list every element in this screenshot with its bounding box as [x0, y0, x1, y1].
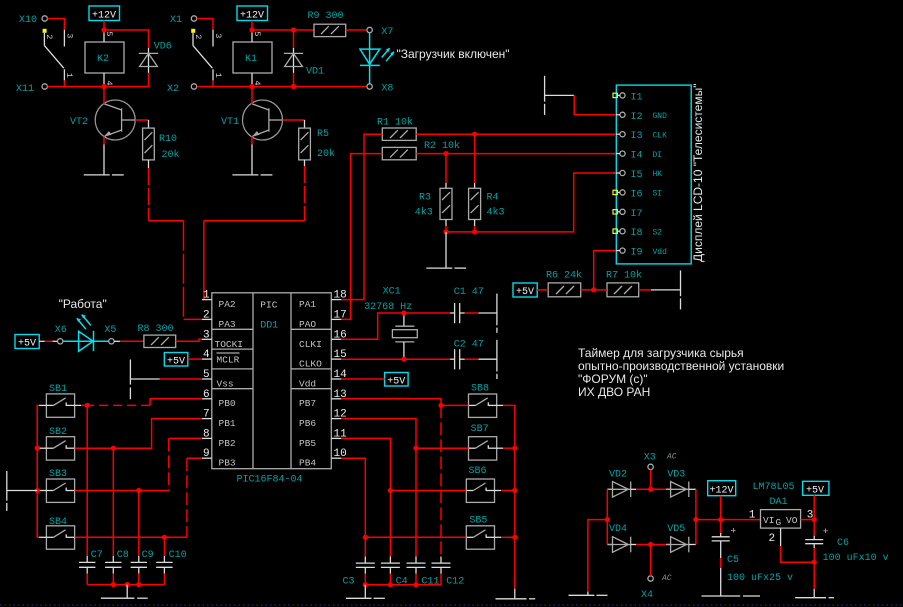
node X10 [19, 15, 47, 26]
crystal XC1 32768 Hz [364, 287, 417, 360]
wire pin16 CLKI to crystal/C1 [341, 313, 450, 339]
ground (C7-C10 rail) [101, 585, 148, 599]
svg-text:AC: AC [661, 574, 672, 583]
ground (C3-C12 rail) [346, 585, 385, 599]
svg-text:3: 3 [203, 329, 210, 341]
svg-text:Vdd: Vdd [299, 378, 316, 389]
svg-text:4k3: 4k3 [487, 207, 505, 219]
node X2 [167, 84, 197, 95]
button SB3 [46, 469, 74, 502]
svg-text:X3: X3 [644, 453, 656, 464]
svg-text:DD1: DD1 [260, 320, 278, 331]
junction R6/R7 [591, 287, 596, 292]
svg-text:3: 3 [64, 33, 74, 38]
svg-text:2: 2 [193, 34, 203, 39]
pin 12 PB6 [299, 409, 347, 429]
ground (Vss pin5) [130, 360, 159, 400]
switch SA1 (X1/X2) [191, 29, 223, 81]
diode VD5 [666, 524, 696, 552]
wire X1 to switch pin 3 [197, 19, 213, 30]
pin 7 PB1 [202, 409, 236, 429]
resistor R2 10k [382, 140, 460, 160]
svg-text:SB7: SB7 [471, 424, 489, 435]
svg-text:CLKO: CLKO [299, 359, 322, 370]
wire VD6 to K2 pin4 rail [104, 73, 149, 87]
svg-text:4: 4 [203, 349, 210, 361]
svg-text:+12V: +12V [710, 486, 734, 497]
junction R3 bottom [443, 229, 448, 234]
svg-text:100 uFx10 v: 100 uFx10 v [823, 553, 889, 564]
capacitor C8 [105, 550, 129, 574]
node X6 [55, 325, 67, 344]
wire bridge bottom rail [636, 544, 666, 546]
wire ground to I2 [574, 95, 616, 114]
pin I6 SI [613, 189, 662, 200]
power +5V (R6) [513, 283, 537, 298]
wire pin15 CLKO to crystal/C2 [341, 358, 450, 360]
svg-text:20k: 20k [317, 148, 335, 160]
svg-text:R4: R4 [487, 193, 499, 204]
junction K2 pin5 [101, 27, 106, 32]
wire C12 column [440, 405, 442, 556]
pin I2 GND [613, 112, 667, 123]
svg-text:Vdd: Vdd [653, 248, 668, 257]
svg-text:SB5: SB5 [469, 516, 487, 527]
svg-text:C1 47: C1 47 [454, 287, 484, 298]
junction VD1 bottom [291, 84, 296, 89]
svg-text:PA3: PA3 [219, 319, 236, 330]
wire C5 to ground [720, 558, 722, 568]
svg-text:VT2: VT2 [70, 117, 88, 128]
button SB5 [466, 516, 494, 550]
pin I7 [613, 209, 643, 220]
ground (C2) [479, 340, 497, 379]
svg-text:PB6: PB6 [299, 418, 316, 429]
pin 16 CLKI [299, 329, 347, 350]
svg-text:+5V: +5V [387, 377, 405, 388]
wire C2 to ground [465, 358, 479, 360]
svg-text:GND: GND [653, 112, 668, 121]
svg-text:20k: 20k [162, 149, 180, 161]
svg-text:PIC16F84-04: PIC16F84-04 [237, 475, 303, 486]
resistor R8 300 [138, 324, 176, 348]
resistor R3 4k3 [415, 154, 452, 226]
wire bridge left node [606, 489, 608, 544]
svg-text:C10: C10 [169, 550, 187, 561]
svg-text:R10: R10 [159, 134, 177, 145]
page boundary dotted line [0, 604, 903, 606]
resistor R10 20k [143, 120, 180, 168]
svg-text:Дисплей LCD-10 "Телесистемы": Дисплей LCD-10 "Телесистемы" [691, 84, 705, 262]
wire R3/R4 bottoms to I5 [445, 226, 447, 232]
button SB7 [469, 424, 497, 460]
wire R1 to PIC pin18 [341, 134, 382, 299]
wire R2 to display I4 [416, 153, 616, 155]
pin 6 PB0 [202, 389, 236, 409]
svg-text:+12V: +12V [240, 11, 264, 22]
svg-text:VO: VO [786, 515, 798, 526]
svg-text:VD4: VD4 [609, 524, 627, 535]
node X4 [641, 574, 672, 601]
junction C6 ground column [812, 560, 817, 565]
wire C7-C10 bottom rail [86, 574, 88, 585]
wire DA1 pin3 to +5V column [801, 519, 815, 521]
svg-text:8: 8 [203, 428, 210, 440]
wire R5 to PIC pin1 (PA2) [304, 166, 306, 221]
svg-text:4k3: 4k3 [415, 207, 433, 219]
junction K1 pin5 [249, 27, 254, 32]
junction bus SB7 [512, 446, 517, 451]
junction C5 column [718, 517, 723, 522]
junction crystal bottom [401, 357, 406, 362]
wire pin14 to +5V [341, 378, 384, 380]
junction +5V column [812, 517, 817, 522]
capacitor C12 [432, 557, 465, 588]
pin 2 PA3 [202, 309, 236, 330]
svg-text:PB4: PB4 [299, 458, 316, 469]
svg-text:9: 9 [203, 448, 210, 460]
junction R4 bottom [472, 229, 477, 234]
junction rail C11 [413, 582, 418, 587]
svg-text:+: + [731, 526, 737, 537]
svg-text:VT1: VT1 [221, 117, 239, 128]
svg-text:C12: C12 [446, 577, 464, 588]
svg-text:+5V: +5V [167, 357, 185, 368]
wire pin12 PB6 to SB7/C11 [341, 419, 468, 449]
svg-text:I1: I1 [631, 92, 643, 103]
button SB4 [46, 517, 74, 549]
svg-text:PB3: PB3 [219, 458, 236, 469]
svg-text:I2: I2 [631, 112, 643, 123]
svg-text:X6: X6 [55, 325, 67, 336]
resistor R4 4k3 [469, 134, 505, 226]
svg-text:K2: K2 [97, 54, 109, 65]
button SB1 [46, 384, 74, 417]
pin I4 DI [613, 151, 662, 162]
wire R8 to pin3 [176, 339, 202, 341]
junction bridge right [693, 517, 698, 522]
svg-text:SB8: SB8 [471, 384, 489, 395]
pin 18 PA1 [299, 290, 347, 311]
svg-text:G: G [776, 517, 782, 528]
svg-text:PA1: PA1 [299, 299, 316, 310]
ground (SB bus) [7, 471, 37, 511]
power +5V (supply) [803, 481, 829, 496]
svg-text:VD5: VD5 [667, 524, 685, 535]
junction bus SB2 [35, 446, 40, 451]
wire C8 column [112, 448, 114, 556]
svg-text:+5V: +5V [18, 339, 36, 350]
svg-text:PB5: PB5 [299, 438, 316, 449]
capacitor C3 [343, 557, 375, 588]
pin 14 Vdd [299, 369, 347, 389]
ground (C6) [795, 589, 834, 598]
capacitor C1 47 [450, 287, 484, 323]
junction bus SB6 [512, 488, 517, 493]
svg-text:I6: I6 [631, 189, 643, 200]
svg-text:Таймер для загрузчика сырья: Таймер для загрузчика сырья [578, 346, 744, 360]
svg-text:I3: I3 [631, 131, 643, 142]
junction R2/R3 [443, 151, 448, 156]
wire C4 column [389, 491, 391, 557]
svg-text:C2 47: C2 47 [454, 339, 484, 350]
button SB6 [466, 466, 494, 502]
wire pin8 PB2 to SB3/C9 [169, 437, 202, 439]
wire bridge left to ground [588, 520, 607, 592]
wire R2 to PIC pin17 [341, 154, 382, 320]
svg-text:HK: HK [653, 170, 663, 179]
power +12V (K1) [237, 6, 268, 22]
pin 15 CLKO [299, 349, 347, 370]
svg-text:R5: R5 [317, 129, 329, 140]
svg-text:CLK: CLK [653, 131, 668, 140]
pin 11 PB5 [299, 428, 347, 448]
svg-text:MCLR: MCLR [217, 355, 240, 366]
svg-text:VD3: VD3 [667, 470, 685, 481]
svg-text:R9 300: R9 300 [308, 11, 344, 22]
resistor R6 24k [546, 270, 582, 297]
svg-text:6: 6 [203, 389, 210, 401]
svg-text:R3: R3 [419, 193, 431, 204]
wire C11 column [415, 448, 417, 556]
svg-text:опытно-производственной устано: опытно-производственной установки [578, 359, 784, 373]
junction R1/R4 [472, 132, 477, 137]
svg-text:X2: X2 [167, 84, 179, 95]
relay K1 [233, 30, 272, 87]
svg-text:ИХ ДВО РАН: ИХ ДВО РАН [578, 385, 650, 399]
transistor VT2 [70, 100, 135, 140]
svg-text:CLKI: CLKI [299, 339, 322, 350]
svg-text:LM78L05: LM78L05 [753, 482, 795, 493]
svg-text:X8: X8 [381, 84, 393, 95]
pin 1 PA2 [202, 290, 236, 311]
svg-text:18: 18 [334, 290, 347, 302]
wire C10 column [163, 537, 165, 556]
wire X3 to bridge top [650, 470, 652, 490]
junction rail C3 [363, 582, 368, 587]
junction C8 column [111, 446, 116, 451]
power +12V (supply) [708, 481, 736, 497]
junction bus SB5 [512, 535, 517, 540]
junction C11 column [413, 446, 418, 451]
pin 5 Vss [202, 369, 234, 389]
wire X5 to R8 [114, 340, 120, 342]
svg-text:R8 300: R8 300 [138, 324, 174, 335]
wire R1 to display I3 [416, 133, 616, 135]
pin I3 CLK [613, 131, 667, 142]
svg-text:VD1: VD1 [306, 67, 324, 78]
wire +12V to K2 pin5 [103, 21, 105, 31]
resistor R5 20k [299, 120, 335, 166]
wire R9 to X7 [346, 29, 366, 31]
wire C3-C12 bottom rail [364, 574, 366, 585]
wire K1 pin4 to VT1 collector [251, 87, 253, 105]
svg-text:100 uFx25 v: 100 uFx25 v [727, 573, 793, 584]
wire X4 to bridge bottom [650, 545, 652, 576]
ground (VT2 emitter) [84, 144, 124, 175]
svg-text:PB0: PB0 [219, 398, 236, 409]
svg-text:I5: I5 [631, 170, 643, 181]
pin I8 S2 [613, 228, 662, 239]
wire +12V output to DA1 pin1 [696, 519, 761, 521]
pin 10 PB4 [299, 448, 347, 468]
wire pin6 PB0 to SB1/C7 [150, 399, 202, 406]
node X5 [104, 325, 116, 344]
wire C3 column [364, 537, 366, 556]
junction C9 column [136, 488, 141, 493]
wire bridge right node [695, 489, 697, 544]
svg-text:XC1: XC1 [383, 287, 401, 298]
svg-text:R7 10k: R7 10k [606, 270, 642, 282]
wire +12V to C5 column [720, 496, 722, 533]
diode VD6 [139, 42, 172, 73]
power +5V (MCLR) [164, 353, 188, 368]
svg-text:DA1: DA1 [770, 497, 788, 508]
capacitor C7 [79, 550, 103, 574]
svg-text:5: 5 [203, 369, 210, 381]
wire pin9 PB3 to SB4/C10 [187, 457, 202, 459]
wire VT2 base to R10 [135, 119, 148, 121]
svg-text:VI: VI [763, 515, 774, 526]
pin 3 TOCKI [202, 329, 243, 350]
svg-text:I4: I4 [631, 151, 643, 162]
pin 8 PB2 [202, 428, 236, 448]
svg-text:C4: C4 [396, 577, 408, 588]
LED HL1 (Загрузчик включен) [360, 33, 394, 84]
junction C10 column [162, 535, 167, 540]
pin 9 PB3 [202, 448, 236, 468]
connector Display LCD-10 [616, 84, 705, 264]
wire R7 right lead [639, 289, 651, 291]
wire divider tap to I9 [594, 251, 616, 290]
pin 13 PB7 [299, 389, 347, 409]
ground (SB right bus) [496, 589, 536, 599]
wire X11 to switch pin1 and K2 bottom rail [47, 80, 64, 86]
diode VD4 [607, 524, 636, 552]
svg-text:1: 1 [213, 73, 223, 78]
node X8 [367, 84, 394, 95]
pin I1 [613, 92, 643, 103]
pin 4 MCLR [202, 349, 240, 365]
wire R6 to R7 [581, 289, 607, 291]
ground (VT1 emitter) [232, 144, 272, 175]
capacitor C9 [131, 550, 154, 574]
svg-text:+12V: +12V [92, 11, 116, 22]
power +5V (X6) [15, 335, 39, 350]
pin I9 Vdd [613, 248, 667, 259]
svg-text:+: + [823, 526, 829, 537]
svg-text:PB2: PB2 [219, 438, 236, 449]
svg-text:X4: X4 [641, 590, 653, 601]
junction rail C9 [136, 582, 141, 587]
switch SA2 (X10/X11) [43, 29, 75, 81]
svg-text:2: 2 [769, 533, 776, 545]
diode VD1 [284, 48, 324, 78]
svg-text:C11: C11 [421, 577, 439, 588]
wire +12V rail K1 to VD1 to R9 [252, 29, 314, 31]
wire C1 to ground [465, 312, 479, 314]
wire +5V to X6 [39, 340, 44, 342]
wire +5V to R6 [537, 289, 548, 291]
svg-text:C5: C5 [727, 555, 739, 566]
capacitor C6 100uFx10v [805, 526, 888, 564]
node X1 [170, 15, 197, 26]
svg-text:+5V: +5V [516, 287, 534, 298]
svg-text:TOCKI: TOCKI [215, 339, 244, 350]
svg-text:Vss: Vss [217, 378, 234, 389]
svg-text:SB6: SB6 [469, 466, 487, 477]
wire R10 to PIC pin2 (PA3) [148, 168, 150, 221]
IC DD1 PIC16F84-04 [212, 293, 331, 486]
svg-text:1: 1 [203, 290, 210, 302]
wire VT2 emitter to ground [103, 137, 105, 145]
wire SB5-SB8 right bus [497, 404, 503, 406]
diode VD3 [666, 470, 696, 498]
svg-text:X5: X5 [104, 325, 116, 336]
wire Vss to pin5 [160, 378, 202, 380]
wire +12V to K1 pin5 [251, 21, 253, 31]
ground (C1) [479, 294, 497, 333]
resistor R9 300 [308, 11, 346, 37]
relay K2 [85, 30, 124, 87]
junction rail C4 [388, 582, 393, 587]
diode VD2 [607, 470, 636, 498]
svg-text:2: 2 [203, 309, 210, 321]
label title block [578, 346, 784, 399]
svg-text:C6: C6 [837, 538, 849, 549]
capacitor C2 47 [450, 339, 484, 369]
svg-text:PAO: PAO [299, 319, 316, 330]
svg-text:I8: I8 [631, 228, 643, 239]
node X3 [644, 453, 677, 470]
ground (display I2) [545, 76, 575, 115]
svg-text:1: 1 [64, 73, 74, 78]
wire X10 to switch pin 3 [47, 19, 64, 30]
wire pin13 PB7 to SB8/C12 [341, 399, 468, 406]
capacitor C11 [407, 557, 440, 588]
wire C9 column [138, 491, 140, 556]
wire +5V to pin4 [188, 358, 202, 360]
wire VT1 emitter to ground [251, 137, 253, 145]
svg-text:"Загрузчик включен": "Загрузчик включен" [397, 47, 510, 61]
LED HL2 (Работа) [63, 314, 109, 351]
svg-text:SI: SI [653, 190, 663, 199]
pin 17 PAO [299, 309, 347, 330]
junction rail C8 [111, 582, 116, 587]
transistor VT1 [221, 100, 283, 140]
wire C7 column [86, 405, 88, 556]
node X7 [367, 27, 394, 38]
wire +5V box to C6 column [813, 495, 815, 536]
svg-text:X10: X10 [19, 15, 37, 26]
wire VD1 bottom to rail [293, 73, 295, 87]
ground (bridge minus) [569, 592, 608, 596]
svg-text:PIC: PIC [260, 300, 277, 311]
wire pin11 PB5 to SB6/C4 [341, 438, 466, 490]
svg-text:2: 2 [44, 34, 54, 39]
svg-text:7: 7 [203, 409, 210, 421]
svg-text:PB7: PB7 [299, 398, 316, 409]
svg-text:DI: DI [653, 151, 663, 160]
ground (R7) [651, 270, 681, 309]
wire +12V rail to VD6 [104, 30, 149, 48]
wire C6 to ground [813, 548, 815, 589]
button SB8 [469, 384, 497, 418]
junction bridge top [648, 487, 653, 492]
svg-text:"Работа": "Работа" [59, 297, 107, 311]
svg-text:AC: AC [666, 453, 677, 462]
svg-text:PA2: PA2 [219, 299, 236, 310]
